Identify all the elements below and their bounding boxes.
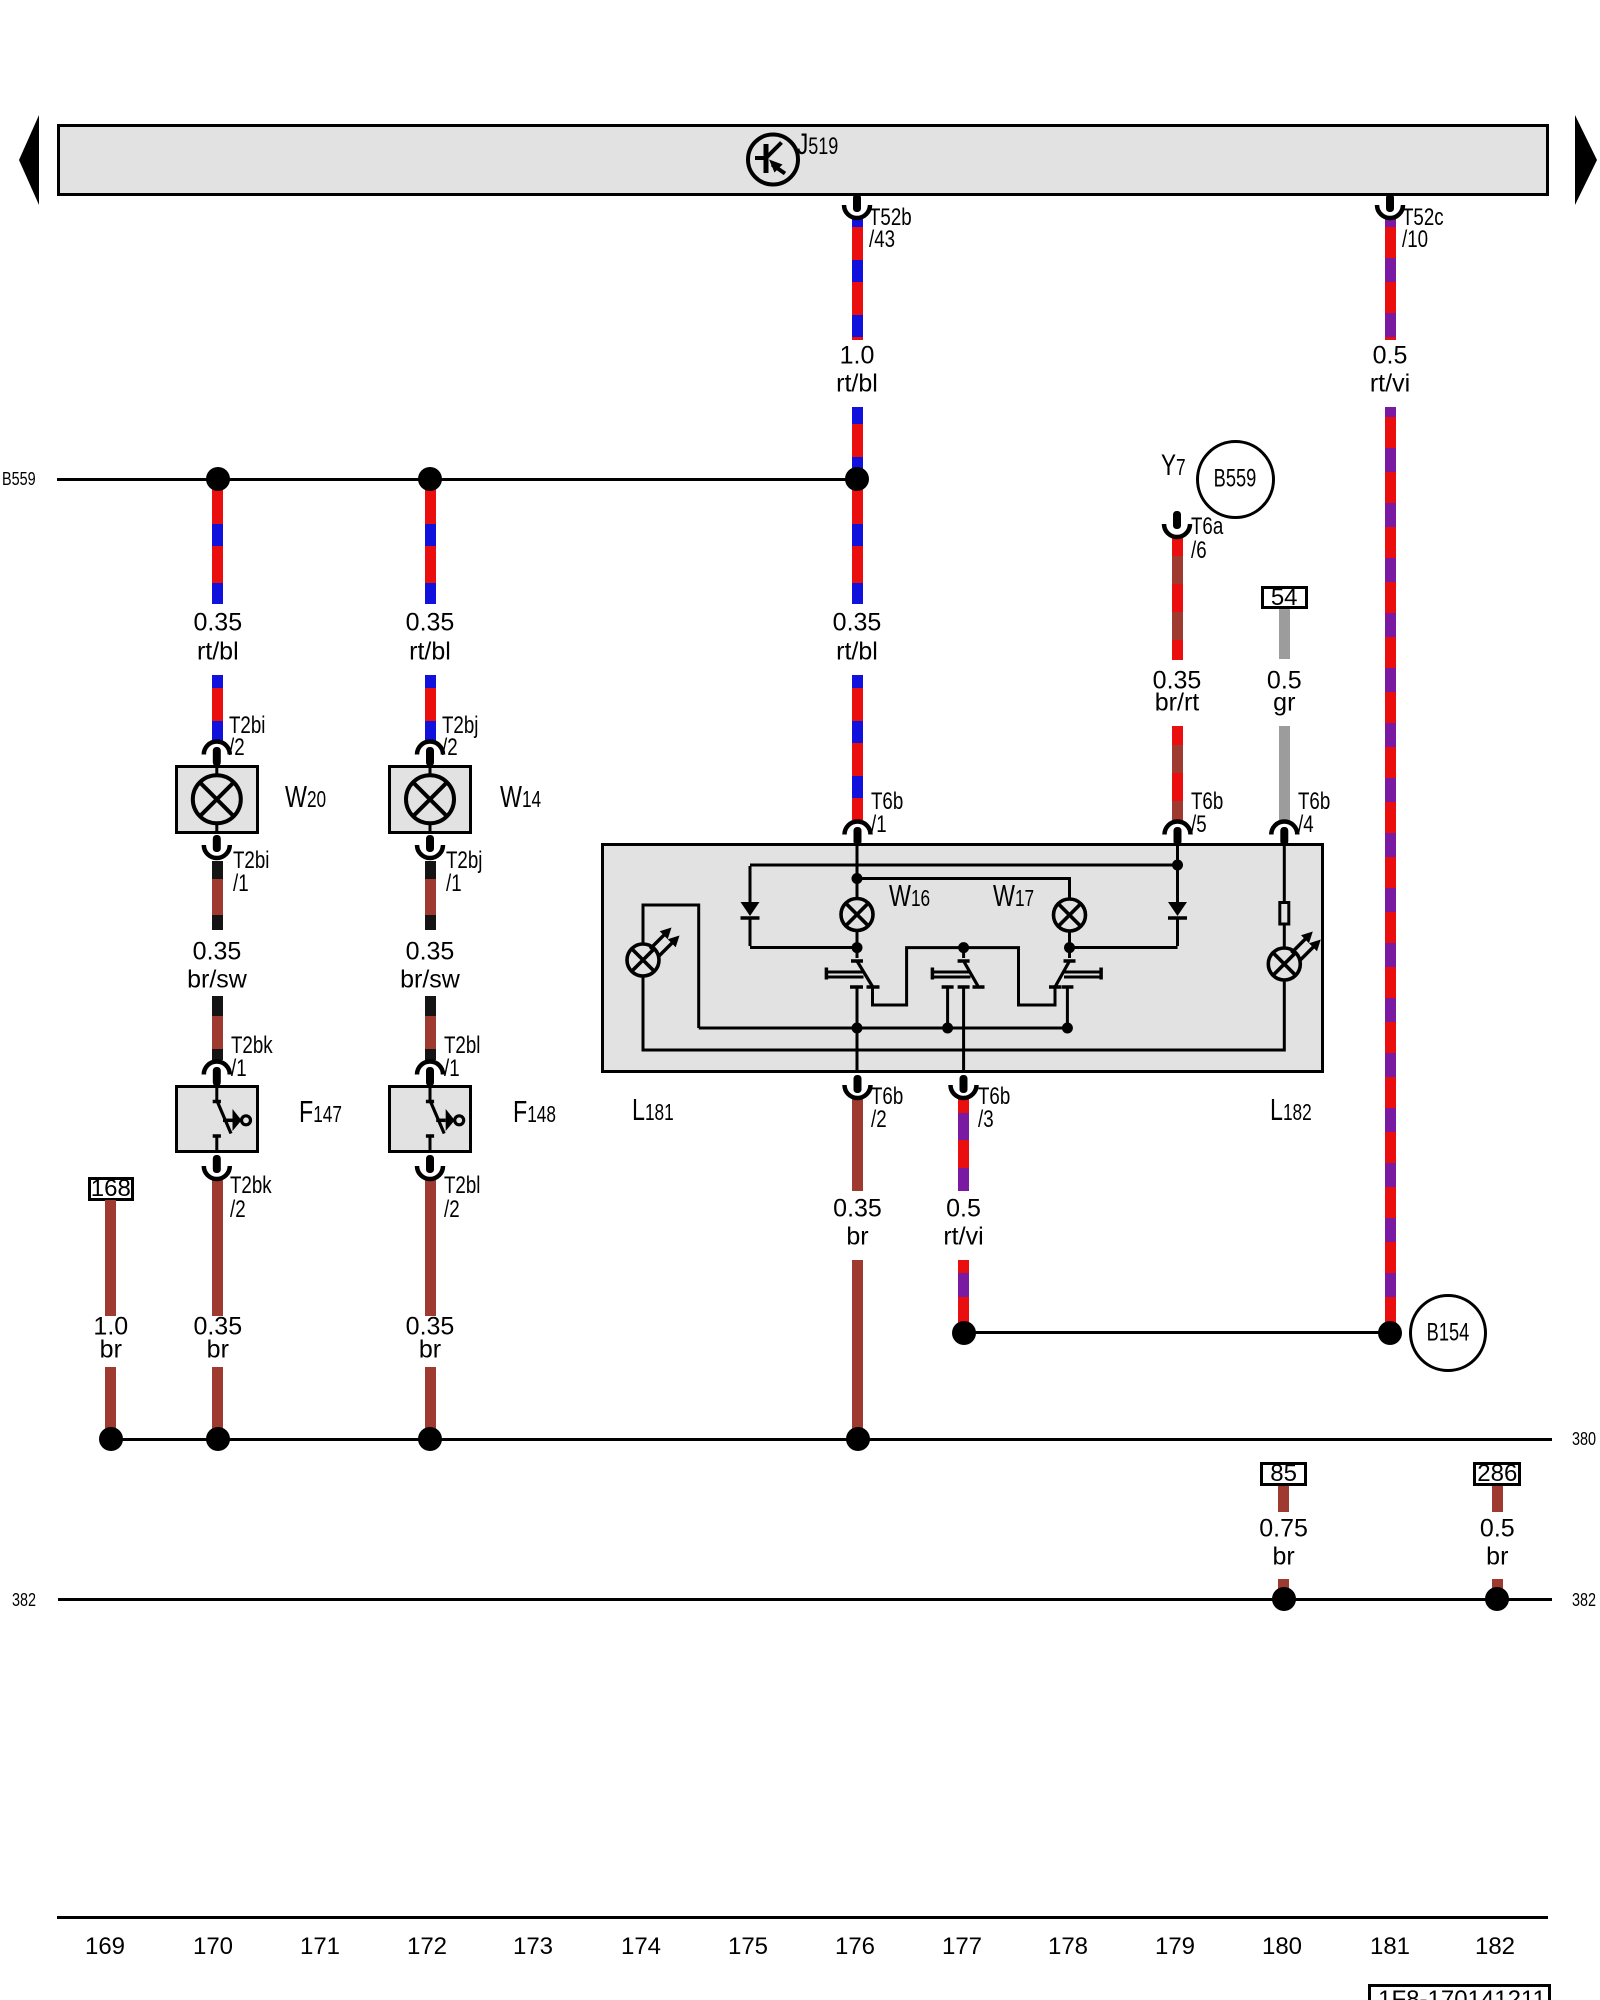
node line to B154 [963,1331,1391,1334]
label 0.35 rt/bl col176 [833,610,882,635]
wire diode2 to W17 node [1070,946,1178,949]
label 0.5 br [1480,1517,1515,1542]
junction dot 382/col180 [1272,1587,1296,1611]
pin label T2bi /2 col170 [229,714,265,738]
junction dot long rt/vi end [1378,1321,1402,1345]
junction dot 380/col169 [99,1427,123,1451]
label F148 [513,1096,556,1127]
terminal box 286 [1473,1462,1521,1485]
wire 0.5 br col182 [1492,1486,1503,1512]
label W20 [285,781,326,812]
wire L181 top loop [643,905,699,1028]
label 0.35 rt/bl col170 [193,610,242,635]
pin label T52c /10 [1402,206,1444,230]
wire W16 to node [856,931,859,948]
junction dot emitter rail mid [942,1023,953,1034]
junction dot Q2 top [958,942,969,953]
label 0.5 gr [1267,668,1302,693]
label 0.35 rt/bl col172 [406,610,455,635]
transistor switch Q3 [964,948,1102,1028]
junction dot 382/col182 [1485,1587,1509,1611]
lamp W14 [406,765,454,834]
wire T6b/5 into box [1176,843,1179,902]
label 0.5 rt/vi T6b/3 [946,1197,981,1222]
label W17 [993,880,1034,911]
label 1.0 rt/bl [840,344,875,369]
label 0.35 br/sw col172 [406,940,455,965]
pin label T6a /6 [1191,515,1223,539]
label 0.35 br col172 [406,1315,455,1340]
label F147 [299,1096,342,1127]
junction dot B559/col176 [845,467,869,491]
pin label T6b /4 [1298,790,1330,814]
wire 0.35 br/rt from T6a [1172,538,1183,660]
junction dot W16 bottom [852,942,863,953]
junction dot emitter rail right [1062,1023,1073,1034]
connector T2bj/2 [417,742,443,767]
connector T2bk/2 [204,1155,230,1179]
bus arrow left [0,0,60,230]
switch contact F147 [213,1085,251,1153]
switch box F148 [388,1085,472,1153]
pin label T2bk /1 [231,1034,273,1058]
junction dot T6b/5 branch [1172,860,1183,871]
wire 0.35 rt/bl col176 [852,485,863,604]
column numbers [85,1935,125,1959]
pin label T6b /5 [1191,790,1223,814]
label 1.0 br col169 [93,1315,128,1340]
connector T2bi/1 [204,835,230,858]
pin label T2bk /2 [230,1174,272,1198]
connector T6b/3 [951,1075,977,1098]
connector T2bj/1 [417,835,443,858]
junction dot W17 bottom [1064,942,1075,953]
LED lamp L181 [627,928,680,977]
ground line 382 [58,1598,1552,1601]
wire 0.35 br/sw col172 [425,861,436,930]
label L182 [1270,1094,1312,1125]
wire node to W17 top [857,879,1070,900]
component box L181/L182 rear lights [601,843,1325,1073]
connector T6b/5 [1165,822,1191,846]
wire 0.5 rt/vi from T52c [1385,219,1396,340]
ground line 380 [111,1438,1552,1441]
connector T52c/10 [1377,194,1403,218]
bus arrow right [1560,0,1600,230]
label 0.75 br [1259,1517,1308,1542]
connector T2bl/2 [417,1155,443,1179]
pin label T6b /2 [871,1085,903,1109]
wire 0.35 rt/bl col172 [425,485,436,604]
label J519 [797,130,838,160]
connector T52b/43 [844,194,870,218]
wire W17 to node [1068,931,1071,948]
label 0.35 br/sw col170 [193,940,242,965]
label 0.35 br T6b/2 [833,1197,882,1222]
label 0.5 rt/vi [1373,344,1408,369]
terminal box 168 [88,1177,135,1201]
bus bar J519 [57,124,1549,196]
wire 0.35 br from T6b/2 [852,1097,863,1191]
connector T2bl/1 [417,1062,443,1087]
lamp W16 [841,899,873,931]
label B559 left [2,470,36,488]
node line B559 [57,478,857,481]
connector T6b/4 [1271,822,1297,846]
connector T6b/2 [845,1075,871,1098]
diode D1 [741,866,760,946]
junction dot B559/col172 [418,467,442,491]
label W14 [500,781,541,812]
junction dot W16 top branch [852,873,863,884]
pin label T6b /3 [978,1085,1010,1109]
bottom frame line [57,1916,1548,1919]
junction dot B559/col170 [206,467,230,491]
pin label T2bl /1 [444,1034,480,1058]
pin label T6b /1 [871,790,903,814]
pin label T2bj /2 col172 [442,714,478,738]
wire 0.35 br/sw col170 [212,861,223,930]
wire 0.5 rt/vi from T6b/3 [958,1097,969,1191]
wire 0.5 gr [1279,609,1290,659]
doc number box [1368,1984,1551,2000]
label Y7 [1161,451,1186,481]
wire 0.35 br col172 [425,1180,436,1316]
connector T6b/1 [845,822,871,846]
label 0.35 br col170 [193,1315,242,1340]
control unit symbol J519 [748,135,798,185]
pin label T2bl /2 [444,1174,480,1198]
junction dot rt/vi end [952,1321,976,1345]
label L181 [632,1094,674,1125]
lamp W20 [193,765,241,834]
junction dot 380/col176 [846,1427,870,1451]
lamp box W14 [388,765,472,834]
diode D2 [1168,902,1187,946]
junction dot 380/col170 [206,1427,230,1451]
connector T6a/6 [1164,511,1190,537]
connector T2bi/2 [204,742,230,767]
switch contact F148 [426,1085,464,1153]
wire top rail diode1 to T6b/5 [750,864,1178,867]
label W16 [889,880,930,911]
label 0.35 br/rt [1153,668,1202,693]
circle B154 [1409,1294,1487,1372]
junction dot emitter rail left [852,1023,863,1034]
wire 0.35 rt/bl col170 [212,485,223,604]
wire L181 bottom [643,976,1284,1050]
pin label T52b /43 [869,206,912,230]
junction dot 380/col172 [418,1427,442,1451]
transistor switch Q1 [826,948,963,1073]
wire T6b/1 to W16 [856,843,859,899]
LED lamp L182 [1268,932,1321,981]
wire 0.75 br col180 [1278,1486,1289,1512]
lamp box W20 [175,765,259,834]
switch box F147 [175,1085,259,1153]
wire 1.0 br col169 [105,1200,116,1316]
lamp W17 [1054,899,1086,931]
wire emitter rail y1028 [699,1027,1068,1030]
connector T2bk/1 [204,1062,230,1087]
transistor switch Q2 [932,948,984,1073]
wire 1.0 rt/bl from T52b [852,219,863,340]
wire 0.35 br col170 [212,1180,223,1316]
pin label T2bi /1 col170 [233,849,269,873]
terminal box 85 [1260,1462,1308,1485]
terminal box 54 [1261,586,1308,609]
circle B559 [1196,440,1275,519]
pin label T2bj /1 col172 [446,849,482,873]
resistor in L182 branch [1280,843,1289,948]
wire diode1 to W16 node [750,946,857,949]
